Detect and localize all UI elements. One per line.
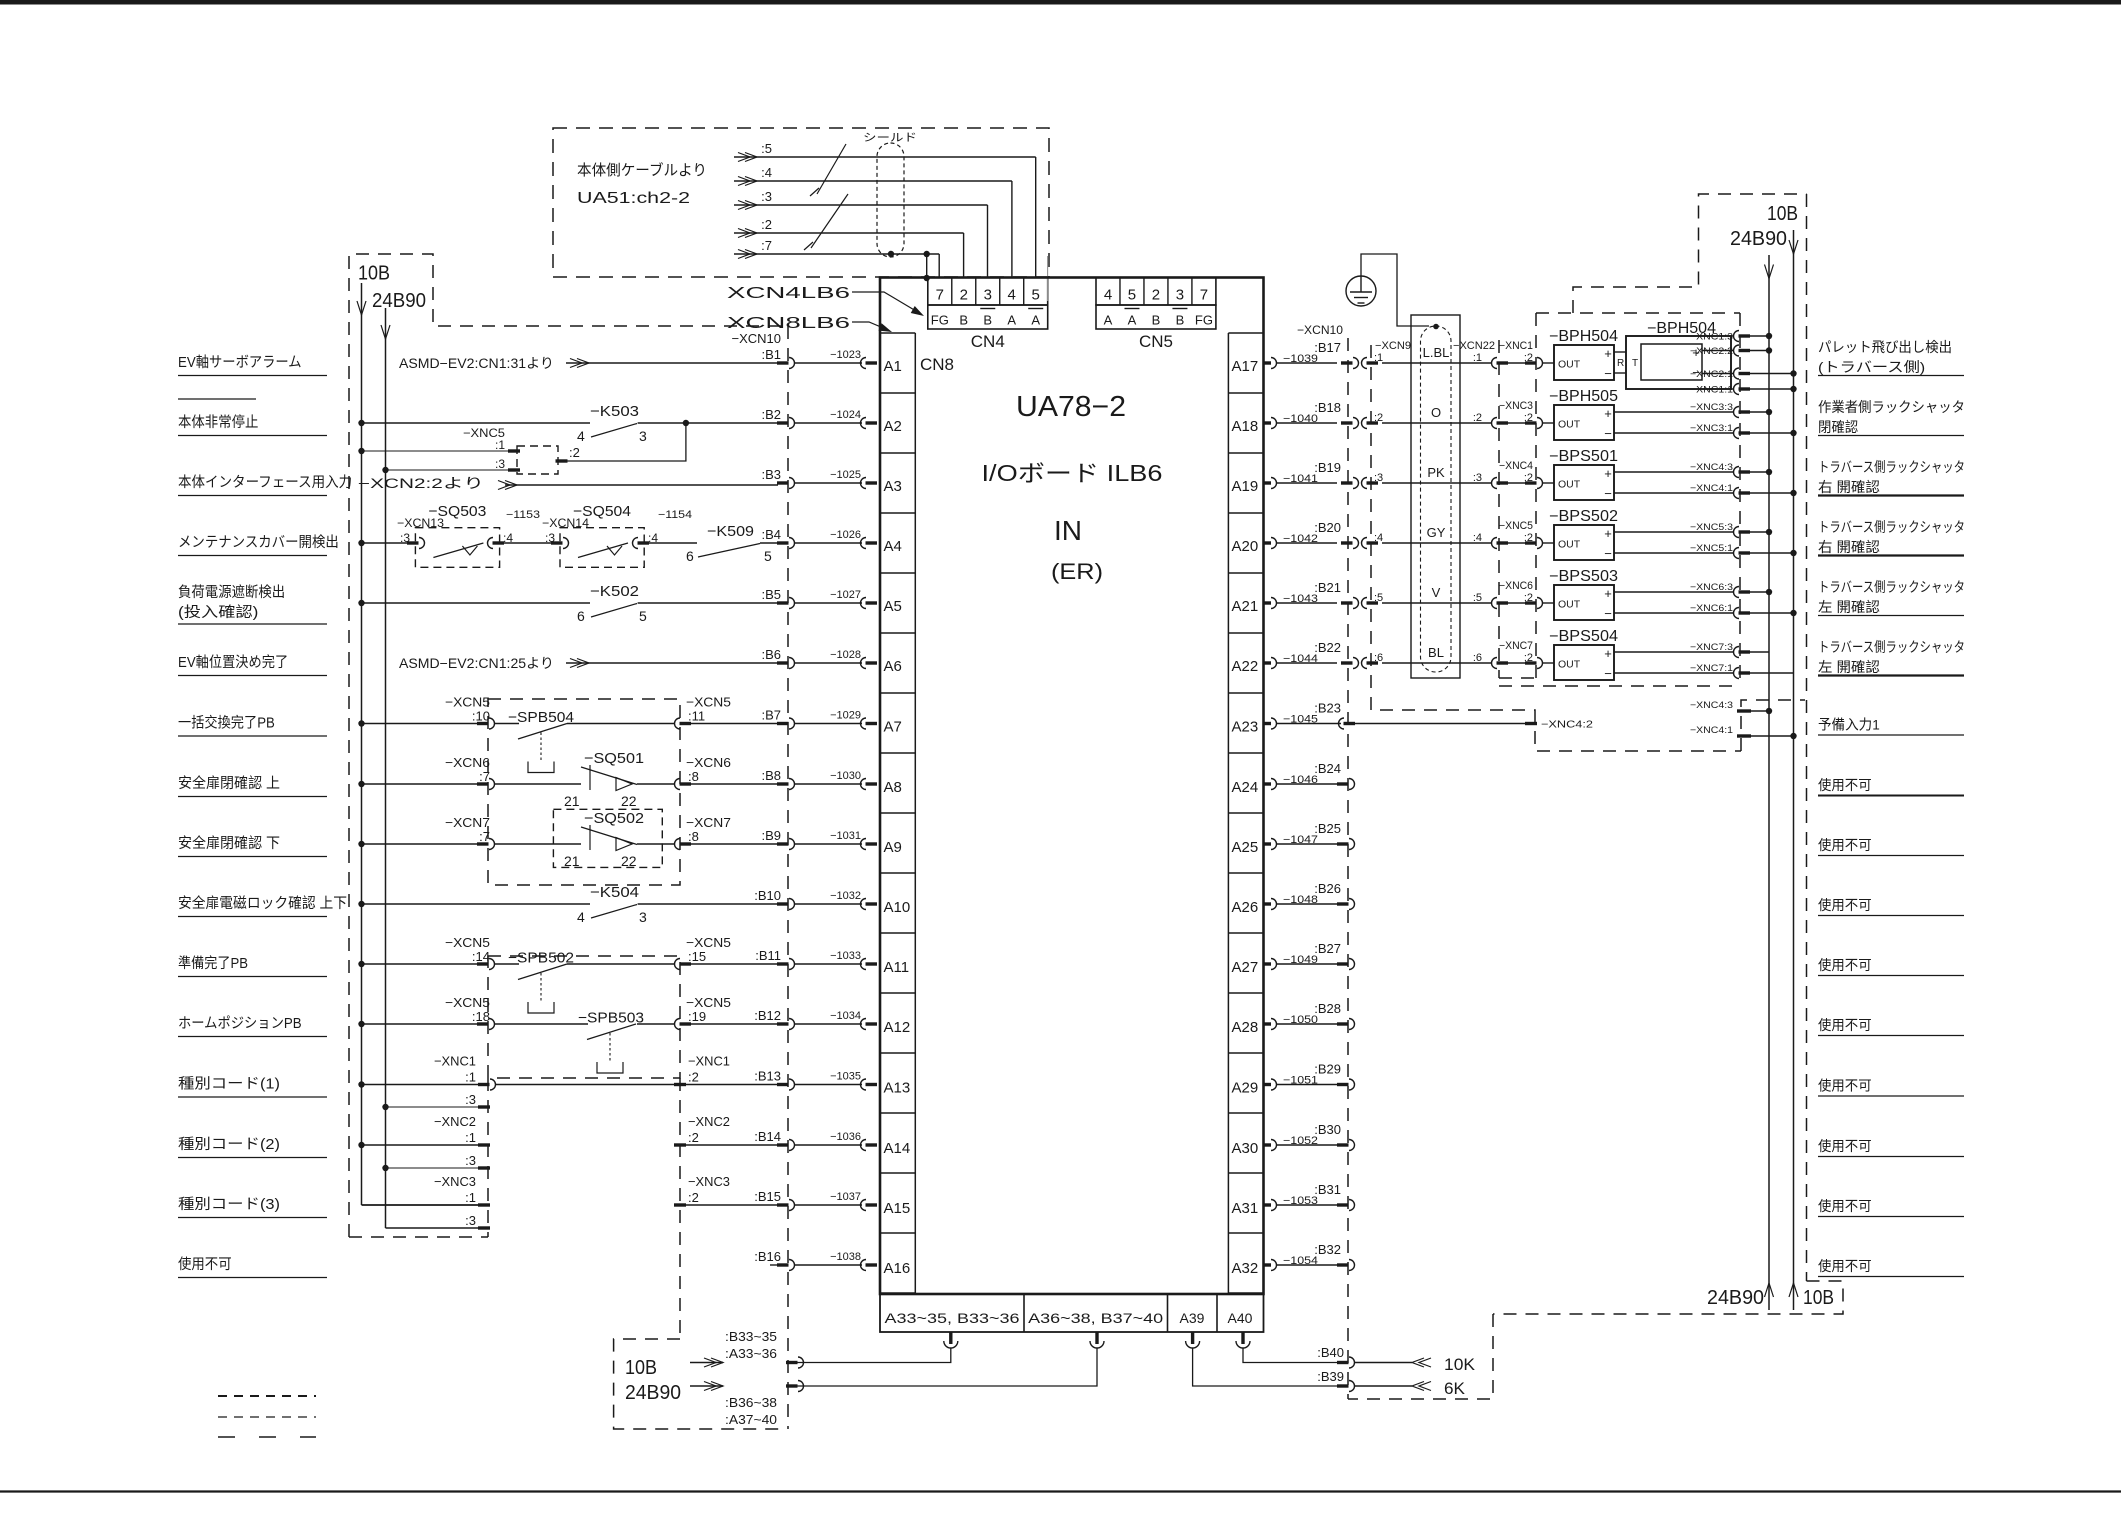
svg-text:−XNC2:1: −XNC2:1 — [1690, 369, 1733, 380]
wire A7 bus to XCN5:10 — [362, 723, 479, 725]
wire XNC7:3 corner — [1768, 651, 1770, 653]
connector :B3 — [777, 481, 789, 484]
wire :7 junction dot shield — [888, 251, 894, 257]
svg-text:−XCN9: −XCN9 — [1375, 340, 1411, 352]
row label underline — [178, 796, 327, 798]
wire A21 to :B21 — [1277, 602, 1338, 604]
wire XNC5:1 — [362, 450, 509, 452]
connector A-side -1034 — [861, 1019, 867, 1030]
bus 24B90 corner to XNC3:3 — [386, 1227, 479, 1229]
connector :B16 — [777, 1263, 789, 1266]
svg-text:使用不可: 使用不可 — [1818, 1198, 1872, 1214]
connector :B28 — [1337, 1022, 1349, 1025]
connector :B30 — [1337, 1143, 1349, 1146]
svg-text:−XCN10: −XCN10 — [732, 331, 782, 346]
wire A1 from ASMD — [566, 362, 778, 364]
svg-text::B4: :B4 — [761, 527, 781, 542]
connector A22 pin — [1264, 661, 1272, 664]
svg-text:−XCN2:2より: −XCN2:2より — [358, 476, 484, 491]
pin cell line left 14 — [880, 1172, 915, 1174]
svg-text:本体インターフェース用入力: 本体インターフェース用入力 — [178, 474, 352, 491]
svg-text:4: 4 — [1104, 287, 1112, 304]
svg-text::2: :2 — [1473, 412, 1482, 424]
wire SQ503 out — [495, 542, 552, 544]
sensor BPS501 wire + — [1614, 471, 1733, 473]
svg-text::B6: :B6 — [761, 647, 781, 662]
pin cell line left 7 — [880, 752, 915, 754]
wire to :B4 — [794, 542, 862, 544]
connector CN5 divider 1 — [1119, 278, 1121, 306]
wire XNC2:3 stub — [386, 1167, 479, 1169]
legend dashed-line sample 2 — [218, 1416, 316, 1418]
svg-text:24B90: 24B90 — [1730, 228, 1787, 250]
svg-text:−1023: −1023 — [830, 349, 861, 361]
svg-text:−SQ501: −SQ501 — [584, 750, 644, 767]
svg-text:A5: A5 — [884, 598, 902, 615]
pin cell line left 1 — [880, 392, 915, 394]
wire A33 bundle — [797, 1348, 951, 1363]
ground symbol stem — [1360, 276, 1362, 292]
connector :B39 — [1337, 1384, 1349, 1387]
ground bar 1 — [1350, 291, 1372, 293]
push button SPB503 blade — [587, 1024, 636, 1040]
svg-text:−XNC1:1: −XNC1:1 — [1690, 385, 1733, 396]
sensor BPS504 wire - — [1614, 672, 1733, 674]
svg-text:−XNC3:1: −XNC3:1 — [1690, 423, 1733, 434]
svg-text::11: :11 — [688, 709, 705, 724]
right label underline — [1818, 1216, 1964, 1218]
bus 10B junction dot — [358, 1081, 364, 1087]
svg-text:−XCN5: −XCN5 — [445, 695, 490, 710]
svg-text:−1024: −1024 — [830, 409, 861, 421]
svg-text:A6: A6 — [884, 658, 902, 675]
connector :B12 — [777, 1022, 789, 1025]
twisted-pair slash hook 1 — [810, 188, 819, 196]
svg-text:−XNC1: −XNC1 — [688, 1054, 730, 1069]
wire A27 to :B27 — [1277, 963, 1338, 965]
XCN8LB6 leader — [852, 322, 888, 330]
svg-text:−K503: −K503 — [590, 403, 639, 420]
svg-text:−: − — [1604, 606, 1612, 621]
svg-text::A37~40: :A37~40 — [725, 1412, 777, 1427]
sensor BPS504 box — [1554, 645, 1614, 680]
svg-text:3: 3 — [639, 428, 647, 444]
connector :B20 — [1341, 541, 1353, 544]
connector CN5 divider 2 — [1143, 278, 1145, 306]
wire XNC to OUT box — [1542, 482, 1554, 484]
connector XNC1:2 tick — [674, 1083, 686, 1086]
legend dashed-line sample 3 — [218, 1436, 316, 1438]
svg-text:−BPH504: −BPH504 — [1549, 328, 1618, 345]
dashed box SPB502/503 group — [488, 956, 680, 1078]
svg-text:左 開確認: 左 開確認 — [1818, 599, 1880, 615]
svg-text:10B: 10B — [625, 1357, 657, 1379]
ground symbol circle — [1346, 276, 1376, 306]
connector A-side -1038 — [861, 1260, 867, 1271]
connector :B33 group — [786, 1361, 798, 1364]
svg-text:OUT: OUT — [1558, 419, 1581, 431]
svg-text:10B: 10B — [1767, 203, 1798, 225]
connector XNC dashed segment — [487, 1078, 489, 1237]
svg-text:10B: 10B — [358, 263, 390, 285]
sensor BPS502 wire + — [1614, 531, 1733, 533]
connector A-side -1024 — [861, 418, 867, 429]
svg-text::1: :1 — [465, 1070, 476, 1085]
bus 10B bottom arrow — [1789, 1283, 1798, 1297]
svg-text::B25: :B25 — [1314, 821, 1341, 836]
bus 10B left arrow — [357, 301, 366, 315]
connector XNC7:1 — [1734, 668, 1740, 679]
wire XCN22 to XNC — [1508, 602, 1525, 604]
pin cell line right 5 — [1228, 632, 1263, 634]
prox switch SQ501 contact bar — [589, 765, 591, 790]
svg-text:5: 5 — [639, 608, 647, 624]
svg-text::B30: :B30 — [1314, 1122, 1341, 1137]
shield capsule — [877, 143, 904, 257]
svg-text:A27: A27 — [1232, 959, 1259, 976]
pin cell line left 6 — [880, 692, 915, 694]
svg-text::B27: :B27 — [1314, 941, 1341, 956]
bus 10B junction dot — [358, 841, 364, 847]
wire A15 to :B15 — [686, 1204, 778, 1206]
cable color box — [1411, 315, 1460, 678]
connector A20 pin — [1264, 541, 1272, 544]
I/O board UA78-2 outline — [880, 278, 1264, 1295]
svg-text:22: 22 — [621, 793, 637, 809]
connector XCN6:8 — [675, 779, 681, 790]
svg-text::2: :2 — [1524, 352, 1533, 364]
bus 24B90 junction dot — [382, 467, 388, 473]
svg-text:安全扉閉確認 下: 安全扉閉確認 下 — [178, 834, 280, 852]
svg-text:−XCN5: −XCN5 — [686, 935, 731, 950]
svg-text::4: :4 — [648, 531, 658, 545]
wire A5 K502 to :B5 — [638, 602, 778, 604]
wire XNC7:3 to bus — [1750, 651, 1769, 653]
connector XCN6:7 — [477, 782, 489, 785]
wire A8 SQ501 to XCN6:8 — [637, 783, 674, 785]
svg-text:4: 4 — [577, 428, 585, 444]
sensor BPH504b outer — [1626, 336, 1731, 389]
connector CN4 divider 1 — [951, 278, 953, 306]
svg-text:−: − — [1604, 546, 1612, 561]
svg-text::1: :1 — [1473, 352, 1482, 364]
connector XNC2:1 tick — [478, 1143, 490, 1146]
connector :B27 — [1337, 962, 1349, 965]
wire A8 bus to XCN6:7 — [362, 783, 479, 785]
connector :B5 — [777, 601, 789, 604]
svg-text:−1035: −1035 — [830, 1071, 861, 1083]
arrow 10K — [1412, 1358, 1424, 1367]
page border bottom line — [0, 1490, 2121, 1492]
svg-text:3: 3 — [1176, 287, 1184, 304]
row label underline — [178, 1217, 327, 1219]
svg-text:CN4: CN4 — [971, 332, 1005, 351]
svg-text::B3: :B3 — [761, 467, 781, 482]
wire XNC1:3 to bus — [1750, 335, 1769, 337]
svg-text:使用不可: 使用不可 — [178, 1256, 232, 1273]
bus 10B corner to XNC3:1 — [362, 1204, 479, 1206]
svg-text:種別コード(2): 種別コード(2) — [178, 1136, 280, 1153]
svg-text::B23: :B23 — [1314, 701, 1341, 716]
bus 10B junction dot — [358, 540, 364, 546]
wire A7 to :B7 — [691, 723, 778, 725]
svg-text::5: :5 — [1374, 592, 1383, 604]
connector XNC4:1 tick — [1737, 734, 1751, 737]
connector A-side -1035 — [861, 1079, 867, 1090]
svg-text::2: :2 — [569, 445, 580, 460]
prox switch SQ502 triangle — [616, 838, 632, 851]
svg-text:6: 6 — [577, 608, 585, 624]
svg-text:A36~38, B37~40: A36~38, B37~40 — [1028, 1310, 1163, 1326]
connector XNC:2 r4 — [1525, 601, 1537, 604]
sensor BPS501 wire - — [1614, 492, 1733, 494]
bus 24B90 left arrow — [381, 325, 390, 339]
svg-text:−XNC4:2: −XNC4:2 — [1541, 719, 1593, 731]
dashed XCN9 column right — [1371, 345, 1741, 751]
svg-text:使用不可: 使用不可 — [1818, 897, 1872, 913]
svg-text:右 開確認: 右 開確認 — [1818, 539, 1880, 555]
arrow 6K — [1412, 1382, 1424, 1391]
svg-text::5: :5 — [1473, 592, 1482, 604]
wire XNC3:3 stub — [386, 1227, 479, 1229]
connector XCN22:1 — [1492, 358, 1498, 369]
wire A15 bus to XNC3:1 — [362, 1204, 479, 1206]
dashed box bottom 10B/24B90 — [614, 1339, 787, 1429]
row label underline — [178, 623, 327, 625]
connector A-side -1027 — [861, 598, 867, 609]
relay contact K504 blade — [591, 905, 637, 919]
dashed top-right box — [1573, 194, 1807, 313]
svg-text::7: :7 — [479, 829, 490, 844]
wire :7 vertical to CN4 — [938, 254, 940, 278]
svg-text::B14: :B14 — [754, 1129, 781, 1144]
svg-text::3: :3 — [465, 1153, 476, 1168]
pin cell line right 12 — [1228, 1052, 1263, 1054]
svg-text:左 開確認: 左 開確認 — [1818, 659, 1880, 675]
connector XNC5:1 — [1734, 548, 1740, 559]
connector XCN5:11 — [675, 718, 681, 729]
pin cell line right 3 — [1228, 512, 1263, 514]
svg-text::3: :3 — [465, 1092, 476, 1107]
svg-text:−BPH505: −BPH505 — [1549, 388, 1618, 405]
connector XNC5:1 tick — [508, 449, 520, 452]
svg-text::B1: :B1 — [761, 347, 781, 362]
connector :B22 — [1341, 661, 1353, 664]
svg-text::B10: :B10 — [754, 888, 781, 903]
svg-text:FG: FG — [931, 313, 949, 328]
sensor BPH504 box — [1554, 345, 1614, 380]
sensor BPS503 box — [1554, 585, 1614, 620]
svg-text:+: + — [1604, 346, 1612, 361]
wire A24 to :B24 — [1277, 783, 1338, 785]
svg-text:3: 3 — [639, 909, 647, 925]
bottom pin divider — [1216, 1294, 1218, 1332]
connector XNC5:2 tick — [556, 459, 568, 462]
bottom pin divider — [1023, 1294, 1025, 1332]
wire A19 to :B19 — [1277, 482, 1338, 484]
connector XNC3:3 tick — [478, 1226, 490, 1229]
wire XNC6:1 to bus — [1750, 612, 1794, 614]
bus 24B90 right — [1768, 255, 1770, 1310]
wire XNC4:3 to bus — [1751, 710, 1769, 712]
connector :B31 — [1337, 1203, 1349, 1206]
svg-text:A11: A11 — [884, 959, 910, 976]
junction XNC3:1 — [1790, 430, 1796, 436]
svg-text:+: + — [1604, 646, 1612, 661]
svg-text:−XNC3: −XNC3 — [1499, 400, 1533, 412]
svg-text:A13: A13 — [884, 1080, 911, 1097]
svg-text:BL: BL — [1428, 645, 1444, 660]
sensor BPH505 box — [1554, 405, 1614, 440]
svg-text:(投入確認): (投入確認) — [178, 604, 258, 621]
connector XCN9:3 — [1362, 478, 1368, 489]
dashed sensor box top — [1536, 312, 1740, 314]
bottom pin tick — [1241, 1332, 1244, 1344]
wire :7 arrow — [745, 250, 757, 259]
wire to :B16 — [794, 1264, 862, 1266]
bottom pin row — [880, 1294, 1264, 1332]
dashed boundary bottom edge — [349, 1236, 488, 1238]
connector XNC:2 r3 — [1525, 541, 1537, 544]
pin cell line right 8 — [1228, 812, 1263, 814]
connector CN4 divider 4 — [1023, 278, 1025, 306]
svg-text::2: :2 — [1524, 592, 1533, 604]
wire A10 bus to K504 — [362, 903, 591, 905]
wire to :B1 — [794, 362, 862, 364]
svg-text::B26: :B26 — [1314, 881, 1341, 896]
pin cell line left 9 — [880, 872, 915, 874]
svg-text:GY: GY — [1427, 525, 1446, 540]
junction dot A2 — [683, 420, 689, 426]
svg-text:−: − — [1604, 486, 1612, 501]
svg-text:EV軸位置決め完了: EV軸位置決め完了 — [178, 654, 288, 671]
svg-text::7: :7 — [761, 238, 772, 253]
wire XNC3:1 to bus — [1750, 432, 1794, 434]
svg-text:パレット飛び出し検出: パレット飛び出し検出 — [1818, 339, 1952, 355]
wire :5 vertical to CN4 — [1035, 157, 1037, 278]
wire to :B2 — [794, 422, 862, 424]
svg-text::2: :2 — [1374, 412, 1383, 424]
wire A16 stub — [770, 1264, 778, 1266]
connector :B14 — [777, 1143, 789, 1146]
svg-text:−BPS502: −BPS502 — [1549, 508, 1618, 525]
svg-text:CN8: CN8 — [920, 355, 954, 374]
svg-text:使用不可: 使用不可 — [1818, 1258, 1872, 1274]
connector XCN5:19 — [675, 1019, 681, 1030]
svg-text::B24: :B24 — [1314, 761, 1341, 776]
svg-text::B8: :B8 — [761, 768, 781, 783]
connector CN4 pin-number row — [928, 278, 1048, 306]
svg-text:5: 5 — [1032, 287, 1040, 304]
svg-text::4: :4 — [503, 531, 513, 545]
wire A26 to :B26 — [1277, 903, 1338, 905]
sensor BPH505 wire + — [1614, 411, 1733, 413]
svg-text:−XNC3:3: −XNC3:3 — [1690, 402, 1733, 413]
bus 10B junction dot — [358, 1142, 364, 1148]
svg-text:−XNC5:3: −XNC5:3 — [1690, 522, 1733, 533]
svg-text:−XNC7:3: −XNC7:3 — [1690, 642, 1733, 653]
svg-text:−1031: −1031 — [830, 830, 861, 842]
svg-text:XCN4LB6: XCN4LB6 — [727, 285, 850, 302]
bus 10B junction dot — [358, 781, 364, 787]
connector CN4 signal row — [928, 305, 1048, 329]
twisted-pair slash 1 — [817, 144, 846, 194]
wire A7 pin to blade — [494, 723, 519, 725]
junction XNC4:1 — [1790, 490, 1796, 496]
pin cell line right 10 — [1228, 932, 1263, 934]
connector XNC2:2 tick — [674, 1143, 686, 1146]
wire A19 to XCN22 — [1382, 482, 1491, 484]
wire :5 horizontal — [734, 156, 1036, 158]
pin cell line right 16 — [1228, 1292, 1263, 1294]
connector A-side -1025 — [861, 478, 867, 489]
svg-text::6: :6 — [1473, 652, 1482, 664]
arrow A1 — [577, 359, 589, 368]
wire A13 through — [495, 1084, 686, 1086]
svg-text::B7: :B7 — [761, 708, 781, 723]
XCN8LB6 arrowhead — [878, 323, 893, 335]
svg-text:L.BL: L.BL — [1423, 345, 1450, 360]
svg-text:R: R — [1617, 358, 1624, 369]
svg-text:10K: 10K — [1444, 1355, 1476, 1374]
XCN4LB6 leader — [852, 292, 921, 314]
wire A2 bus to K503 — [362, 422, 591, 424]
dashed right corner — [1493, 1281, 1843, 1314]
connector CN5 signal row — [1096, 305, 1216, 329]
svg-text:3: 3 — [984, 287, 992, 304]
wire XNC to OUT box — [1542, 662, 1554, 664]
svg-text:−XNC2: −XNC2 — [434, 1114, 476, 1129]
svg-text:O: O — [1431, 405, 1441, 420]
svg-text:(トラバース側): (トラバース側) — [1818, 359, 1925, 375]
arrow A3 — [505, 481, 517, 490]
sensor BPS504 wire + — [1614, 651, 1733, 653]
pin cell line left 2 — [880, 452, 915, 454]
wire A9 bus to XCN7:7 — [362, 843, 479, 845]
right label underline — [1818, 554, 1964, 556]
bus 24B90 bottom arrow — [1765, 1283, 1774, 1297]
connector :B21 — [1341, 601, 1353, 604]
row label underline — [178, 916, 327, 918]
connector XCN13:3 — [407, 541, 419, 544]
wire :2 arrow — [745, 229, 757, 238]
wire :4 horizontal — [734, 180, 1012, 182]
right label underline — [1818, 1156, 1964, 1158]
svg-text:24B90: 24B90 — [1707, 1287, 1764, 1309]
svg-text:21: 21 — [564, 853, 580, 869]
wire A22 to XCN22 — [1382, 662, 1491, 664]
connector A29 pin — [1264, 1083, 1272, 1086]
svg-text:−1038: −1038 — [830, 1251, 861, 1263]
connector XNC3:1 tick — [478, 1203, 490, 1206]
wire arrow 24B90 — [690, 1385, 723, 1387]
connector XNC1:3 tick — [478, 1105, 490, 1108]
svg-text:本体側ケーブルより: 本体側ケーブルより — [577, 161, 707, 179]
wire A11 to :B11 — [691, 963, 778, 965]
connector A23 pin — [1264, 722, 1272, 725]
wire XCN22 to XNC — [1508, 662, 1525, 664]
wire XNC4:3 to bus — [1750, 471, 1769, 473]
right label underline — [1818, 494, 1964, 496]
svg-text:シールド: シールド — [863, 132, 917, 144]
connector A-side -1023 — [861, 358, 867, 369]
right label underline — [1818, 795, 1964, 797]
svg-text:22: 22 — [621, 853, 637, 869]
svg-text:−XCN5: −XCN5 — [445, 995, 490, 1010]
bottom pin tick — [949, 1332, 952, 1344]
connector A19 pin — [1264, 481, 1272, 484]
wire to :B7 — [794, 723, 862, 725]
